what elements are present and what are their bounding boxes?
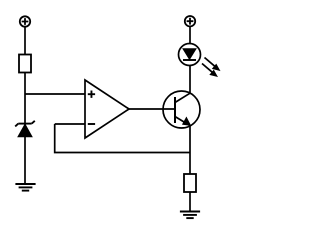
resistor R2 — [184, 174, 196, 192]
LED D2 — [179, 44, 201, 66]
V+ supply terminal right — [185, 16, 195, 26]
transistor Q1 — [163, 91, 200, 128]
wire from R1 down through zener to ground — [24, 73, 26, 185]
resistor R1 — [19, 55, 31, 73]
wire R2 to ground — [189, 192, 191, 212]
LED emission arrows — [202, 58, 220, 77]
wire from V+ to LED — [189, 26, 191, 44]
ground left — [15, 184, 35, 191]
wire emitter to R2 — [189, 126, 191, 175]
ground right — [180, 212, 200, 219]
wire feedback (to emitter node) — [55, 124, 190, 153]
op-amp U1 — [85, 80, 129, 138]
zener diode D1 — [15, 121, 35, 137]
wire node A to op-amp + input — [25, 93, 85, 95]
wire inverting input — [55, 123, 85, 125]
wire from V+ to R1 — [24, 27, 26, 55]
wire op-amp output to base — [129, 108, 175, 110]
wire collector to LED — [189, 65, 191, 93]
V+ supply terminal left — [20, 16, 30, 26]
